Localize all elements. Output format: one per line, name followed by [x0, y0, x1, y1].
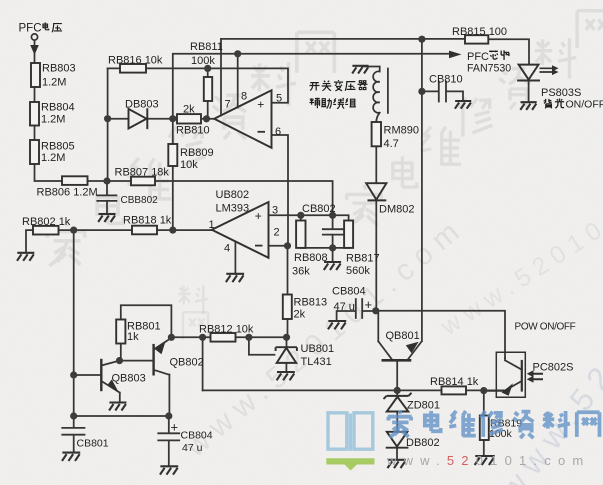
wire: RB811 top/bottom stubs [207, 68, 209, 118]
resistor RB816 [120, 64, 146, 73]
wire: x202.6 down to bottom rail [202, 337, 204, 390]
wire: CBB802 stubs [106, 181, 108, 214]
input arrow [30, 45, 39, 55]
resistor RB810 [177, 114, 201, 123]
ground TL431 [277, 372, 295, 380]
wire: node to PC802S collector [376, 311, 505, 358]
PS803S emission arrows [540, 68, 554, 72]
junction CB802 top [329, 212, 336, 219]
capacitor CB801 [62, 428, 84, 435]
wire: pin8 vertical [237, 54, 239, 108]
resistor RB805 [30, 140, 39, 164]
wire: vertical x107.6 RB816/DB803/node [107, 68, 109, 181]
PC802S phototransistor [521, 360, 523, 392]
resistor RB812 [211, 333, 236, 342]
resistor RB814 [442, 386, 467, 394]
wire: ZD801/DB802 series to ground [396, 390, 398, 459]
op-amp UB802 LM393 [212, 202, 269, 258]
junction wireA/pin8 [234, 50, 241, 57]
wire: QB801 base down [396, 361, 398, 391]
resistor RB808 [296, 221, 305, 248]
zener ZD801 [384, 393, 412, 412]
resistor RB818 [132, 226, 157, 235]
ground UB802 pin4 [226, 274, 244, 282]
arrow to PFC chip [449, 51, 462, 59]
wire: long vertical x421.9 (top rail to QB801 emitter) [421, 39, 423, 341]
PC802S light arrows [532, 374, 543, 380]
wire: pin7 vertical [220, 39, 222, 116]
diode DM802 [366, 183, 386, 200]
label PFC voltage CJK 电压 [43, 22, 49, 29]
capacitor CB810 [439, 82, 446, 102]
junction CB810 tap [418, 88, 425, 95]
wire: RB807 right to CB802 top corner [155, 181, 333, 215]
ground QB803 emitter [109, 403, 126, 411]
junction RB812 left [199, 334, 206, 341]
junction DB803 anode [104, 115, 111, 122]
junction rail416 right [165, 412, 172, 419]
winding core line [387, 69, 389, 113]
ground CBB802 [98, 214, 115, 222]
ground CB801 [62, 453, 80, 461]
wire: CB804 mid connections [337, 311, 376, 321]
junction QB803 base tap [70, 371, 77, 378]
ground RB819 [475, 456, 495, 465]
junction QB801 base/ZD801 [394, 387, 401, 394]
capacitor CB804 47u (bottom) [158, 433, 179, 440]
junction RB806/RB807 node [103, 177, 110, 184]
junction top rail x422 [418, 36, 425, 43]
junction RB812 right [245, 334, 252, 341]
junction RB802 right [70, 227, 77, 234]
wire: QB801 collector from CB804 node [377, 311, 379, 342]
label PFC chip CJK 芯片 [489, 50, 498, 59]
resistor RB803 [31, 63, 40, 87]
junction pin2/RB813 [284, 242, 291, 249]
ground CB804 mid [328, 321, 346, 329]
resistor RB811 [204, 77, 212, 101]
wire: bottom rail y390.4 [203, 389, 504, 391]
resistor RB809 [168, 144, 177, 166]
wire: output rail y230 RB802/RB818/pin1 [26, 230, 212, 252]
optocoupler PC802S box [496, 352, 525, 397]
junction rail416 left [70, 412, 77, 419]
wire: CB810 connections [422, 91, 463, 100]
transformer aux winding (coil) [373, 71, 380, 113]
capacitor CB802 (pin3) [323, 229, 343, 234]
resistor RB807 [131, 177, 155, 186]
wire: QB803 base [74, 374, 102, 376]
wire: winding top to ground [362, 67, 380, 72]
junction QB803 collector [116, 357, 123, 364]
wire: TL431 cathode/ref/anode [249, 337, 287, 371]
wire: QB802 collector down [168, 375, 170, 417]
label transformer CJK 开关变压器 [309, 83, 319, 91]
wire: RB816 left and right, to pin5 bracket [108, 68, 288, 102]
wire: RB810 right to op-amp apex [201, 118, 214, 120]
resistor RB804 [30, 102, 39, 126]
wire: RB803-RB804-RB805 chain [35, 87, 63, 181]
diode DB803 [129, 109, 147, 129]
resistor RB802 [33, 226, 59, 235]
junction RB813/TL431 [283, 334, 290, 341]
junction RB810 right [203, 115, 210, 122]
wire: CB801 stubs [73, 416, 75, 452]
capacitor CB804 47u (mid) [356, 299, 362, 318]
LED PS803S [517, 65, 540, 81]
wire: RM890 to DM802 [375, 146, 377, 183]
junction RB814/RB819 [480, 387, 487, 394]
wire: winding bottom to RM890 [376, 113, 379, 122]
wire: RB819 stubs [483, 391, 485, 456]
wire: vertical x172.8 (RB810 node / RB809 / RB818) [172, 54, 174, 230]
junction CB804/QB801 collector [372, 307, 379, 314]
diode DB802 [386, 432, 409, 448]
resistor RB806 [62, 176, 88, 185]
transistor QB803 [100, 359, 102, 391]
ground RB808 rail [324, 262, 341, 270]
ground PS803S [520, 102, 536, 110]
resistor RB819 [480, 416, 489, 441]
wire: DM802 cathode down to CB804 node [375, 201, 377, 311]
wire: pin2 to RB813 [269, 246, 288, 337]
node PFC terminal [31, 34, 37, 40]
resistor RB817 [344, 221, 353, 248]
ground CB810 [455, 101, 471, 109]
wire: DB803 anode/cathode connections [108, 118, 177, 120]
wire: CB804 bottom stubs [168, 416, 170, 466]
label aux winding CJK 辅助绕组 [309, 98, 319, 109]
junction RB811 top [204, 65, 211, 72]
wire: RB801 bottom [120, 344, 122, 361]
ground winding [352, 66, 368, 74]
transistor QB802 [152, 344, 154, 376]
wire: top feedback rail (wire C) with RB815 to LED [221, 39, 529, 65]
wire: pin6 bracket down to pin2 [272, 135, 289, 246]
ground RB802 [17, 253, 34, 261]
resistor RM890 [372, 122, 381, 146]
wire: bottom rail y416 [74, 415, 169, 417]
label backlight CJK 背光 [544, 99, 552, 108]
wire: pin4 to ground [234, 242, 236, 273]
wire: vertical x73.7 down to bottom rail [73, 230, 75, 416]
ground CB804 bottom [160, 466, 178, 474]
wire: pin3 net to RB808/CB802/RB817 [269, 215, 349, 220]
resistor RB815 [465, 35, 488, 43]
ground DB802 [387, 460, 405, 468]
op-amp comparator (pins 7/8/5/6) [214, 90, 271, 148]
wire: comparator out rail to PFC chip arrow (wire A) [174, 53, 450, 55]
wire: CB802 stubs [332, 215, 334, 248]
resistor RB813 [283, 295, 292, 320]
wire: PFC input down to RB803 [34, 41, 36, 64]
junction CB802 bottom [329, 244, 336, 251]
TL431 UB801 [276, 347, 297, 363]
wire: y337 run QB802 to RB812 to TL431 [171, 336, 286, 338]
junction RB808 top [297, 212, 304, 219]
wire: PC802S emitter to rail [484, 390, 504, 392]
resistor RB801 [116, 320, 125, 344]
wire: RB806 to node and RB807 [88, 180, 132, 182]
junction QB802 emitter [168, 334, 175, 341]
watermark logo book icon [328, 413, 373, 451]
watermark logo CJK 家电维修资料网 blue [388, 410, 412, 437]
watermark logo green band [326, 458, 374, 470]
junction RB818 right [169, 227, 176, 234]
wire: bottom rail RB808/RB817 with ground stub [301, 215, 349, 261]
transistor QB801 [378, 341, 421, 360]
wire: RB801 top loop to QB802 emitter node [121, 305, 172, 337]
junction RB810 left [169, 115, 176, 122]
capacitor CBB802 [97, 195, 116, 201]
wire: PS803S cathode to ground [528, 81, 530, 102]
